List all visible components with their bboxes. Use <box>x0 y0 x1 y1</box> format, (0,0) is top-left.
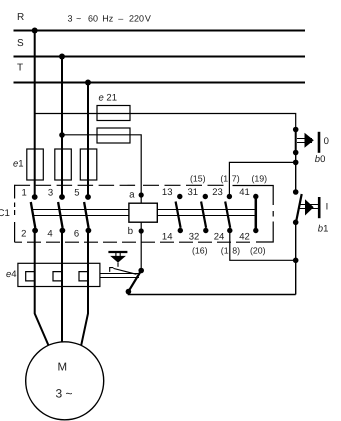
trip actuator plunger <box>110 256 126 263</box>
svg-text:(1: (1 <box>220 174 228 184</box>
contactor dashed frame bottom edge <box>15 241 250 243</box>
svg-text:3 ~: 3 ~ <box>55 386 72 400</box>
wire bottom return <box>128 291 295 295</box>
node junction L2 tap <box>59 132 65 138</box>
main contact 5-6 <box>85 194 91 200</box>
svg-text:(20): (20) <box>250 245 266 255</box>
trip link slant <box>113 268 136 274</box>
svg-text:42: 42 <box>239 232 250 243</box>
svg-text:23: 23 <box>212 187 223 198</box>
svg-text:(16): (16) <box>192 245 208 255</box>
trip contact blade <box>129 271 142 292</box>
wire b1 down to return <box>295 222 297 294</box>
svg-text:3~60Hz–220V: 3~60Hz–220V <box>68 14 151 24</box>
contactor frame top right solid and right edge dash-dot <box>233 186 274 243</box>
motor wire U <box>35 231 49 346</box>
svg-text:C1: C1 <box>0 208 10 219</box>
svg-text:14: 14 <box>162 232 173 243</box>
aux contact 31-32 <box>203 194 208 199</box>
heater element 1 <box>26 272 35 281</box>
fuse e21 lower <box>97 128 130 143</box>
svg-text:b: b <box>128 226 134 237</box>
pushbutton b0 actuator <box>297 139 312 143</box>
trip contact top node <box>138 268 144 274</box>
trip actuator stems <box>116 252 120 256</box>
node coil a <box>139 192 144 197</box>
svg-text:S: S <box>17 38 24 49</box>
node branch to 23 <box>293 160 299 166</box>
motor wire W <box>81 231 88 346</box>
wire L3 vertical <box>87 83 89 198</box>
wire b0 to branch node <box>295 153 297 193</box>
motor M <box>26 342 104 420</box>
contactor dashed frame top edge <box>15 184 136 186</box>
svg-text:32: 32 <box>189 232 200 243</box>
motor wire V <box>61 231 63 343</box>
svg-text:2: 2 <box>21 229 26 240</box>
svg-text:M: M <box>58 361 68 373</box>
wire L2 vertical <box>61 57 63 198</box>
svg-text:4: 4 <box>47 229 52 240</box>
wire 24 to b1 bottom node <box>230 231 296 261</box>
svg-text:13: 13 <box>162 187 173 198</box>
svg-text:(1: (1 <box>221 245 229 255</box>
node above b0 <box>293 127 299 133</box>
aux contact 13-14 <box>177 194 182 199</box>
aux contact 41-42 (closed) <box>253 194 258 199</box>
svg-text:I: I <box>326 201 329 212</box>
svg-text:e4: e4 <box>6 269 17 280</box>
svg-text:e1: e1 <box>13 159 24 170</box>
fuse e1 pole 1 <box>27 149 44 180</box>
node below b1 <box>293 220 299 226</box>
trip contact bottom node <box>126 289 132 295</box>
fuse e1 pole 3 <box>80 149 97 180</box>
contactor dashed frame left edge <box>14 185 16 242</box>
svg-text:b0: b0 <box>315 154 326 165</box>
linkage bar lower <box>34 215 255 217</box>
linkage bar upper <box>33 209 255 211</box>
node junction T <box>85 80 91 86</box>
wire coil b down <box>140 222 142 270</box>
svg-text:T: T <box>17 63 23 74</box>
wire control from L2 to coil a <box>62 135 141 203</box>
svg-text:41: 41 <box>239 187 250 198</box>
node coil b <box>139 228 144 233</box>
svg-text:(15): (15) <box>190 174 206 184</box>
wire control from L1 to b0 <box>35 114 296 130</box>
svg-text:(19): (19) <box>251 174 267 184</box>
aux contact 23-24 <box>227 194 232 199</box>
trip link step <box>110 268 114 272</box>
svg-text:8): 8) <box>232 245 240 255</box>
wire 23 to b0/b1 node <box>229 162 295 196</box>
svg-text:5: 5 <box>74 188 79 199</box>
node below b0 <box>293 150 299 156</box>
node junction R <box>32 28 38 34</box>
overload mechanical link <box>100 274 139 278</box>
svg-text:3: 3 <box>48 188 53 199</box>
main contact 1-2 <box>32 194 38 200</box>
heater element 2 <box>53 272 62 281</box>
svg-text:a: a <box>129 190 135 201</box>
node above b1 <box>293 189 299 195</box>
node junction 24 wire <box>293 258 299 264</box>
fuse e1 pole 2 <box>55 149 72 180</box>
svg-text:31: 31 <box>188 187 199 198</box>
phase line T <box>14 82 306 84</box>
overload relay e4 box <box>18 263 100 286</box>
svg-text:6: 6 <box>74 229 79 240</box>
svg-text:7): 7) <box>232 174 240 184</box>
fuse e21 upper <box>97 106 130 121</box>
coil C1 <box>129 203 157 222</box>
main contact 3-4 <box>59 194 65 200</box>
svg-text:b1: b1 <box>318 223 329 234</box>
svg-text:R: R <box>17 12 24 23</box>
pushbutton b0 contact (NC) <box>295 130 297 153</box>
phase line S <box>14 56 306 58</box>
wire L1 vertical <box>34 31 36 198</box>
node junction S <box>59 54 65 60</box>
svg-text:0: 0 <box>324 136 329 147</box>
svg-text:e 21: e 21 <box>99 93 118 104</box>
heater element 3 <box>79 272 88 281</box>
trip actuator bar <box>108 251 127 253</box>
pushbutton b1 contact (NO) <box>296 194 302 222</box>
pushbutton b1 actuator <box>299 205 319 209</box>
phase line R <box>14 30 306 32</box>
svg-text:24: 24 <box>214 232 225 243</box>
svg-text:1: 1 <box>22 188 27 199</box>
